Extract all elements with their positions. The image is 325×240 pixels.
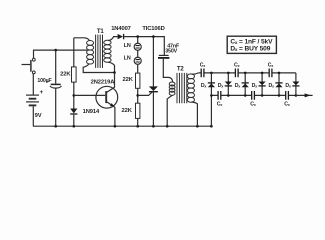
diode Dx 3 up [235, 73, 249, 96]
svg-text:Dₓ: Dₓ [235, 83, 241, 89]
capacitor Cx 3 bottom [284, 91, 290, 108]
diode D2 1N4007 [111, 26, 131, 39]
capacitor C1 100uF electrolytic [37, 50, 61, 126]
svg-text:TIC106D: TIC106D [142, 26, 164, 32]
svg-text:350V: 350V [165, 48, 177, 54]
wire between lamps [137, 50, 139, 57]
diode Dx 4 down [252, 73, 266, 96]
node dots on ground bus [54, 125, 57, 128]
wire battery to ground bus [32, 106, 34, 126]
node info box [227, 36, 276, 53]
T2 core [177, 73, 187, 103]
node junction 100uF tap [54, 49, 57, 52]
wire switch to battery [32, 74, 34, 95]
svg-text:1N914: 1N914 [83, 109, 100, 115]
svg-text:2N2219A: 2N2219A [91, 79, 116, 85]
svg-text:Cₓ: Cₓ [217, 102, 223, 108]
svg-text:1N4007: 1N4007 [111, 26, 131, 32]
svg-text:Cₓ: Cₓ [284, 102, 290, 108]
svg-text:Cₓ: Cₓ [200, 62, 206, 68]
wire CW ground riser [210, 95, 212, 126]
svg-text:+: + [47, 80, 50, 85]
wire CW bottom rail [211, 94, 296, 96]
svg-text:T1: T1 [97, 29, 105, 35]
node dots bottom rail [210, 94, 213, 97]
T1 secondary-right winding [104, 40, 111, 44]
wire lamp to R2 [137, 64, 139, 73]
T1 primary-left winding [74, 38, 90, 41]
T2 secondary winding [187, 74, 194, 79]
svg-text:LN: LN [124, 56, 131, 62]
svg-text:Dₓ = BUY 509: Dₓ = BUY 509 [230, 45, 270, 52]
thyristor U1 TIC106D [142, 26, 164, 126]
capacitor Cx C top [268, 62, 274, 77]
svg-text:Dₓ: Dₓ [268, 83, 274, 89]
T2 primary winding [169, 82, 175, 86]
resistor R1 22K (base bias) [60, 38, 76, 109]
capacitor Cx 2 bottom [250, 91, 256, 108]
node gate junction [136, 94, 139, 97]
wire top rail to 47nF corner [124, 37, 164, 55]
svg-text:LN: LN [124, 43, 131, 49]
lamp LN2 neon [124, 56, 142, 65]
node lamp tap [136, 35, 139, 38]
wire HV output with arrow [296, 93, 313, 97]
capacitor Cx 1 bottom [217, 91, 223, 108]
wire CW top rail [198, 72, 296, 74]
node base junction [73, 94, 76, 97]
transformer T1 [74, 29, 118, 73]
diode Dx 5 up [268, 73, 282, 96]
node dots top rail [210, 72, 213, 75]
diode Dx 1 up [201, 73, 215, 96]
transistor Q1 2N2219A [91, 73, 118, 127]
capacitor C2 47nF 350V [158, 44, 180, 82]
svg-text:Cₓ: Cₓ [234, 62, 240, 68]
node collector junction [113, 71, 116, 74]
svg-text:Dₓ: Dₓ [201, 83, 207, 89]
svg-text:Dₓ: Dₓ [285, 83, 291, 89]
svg-text:22K: 22K [123, 77, 134, 83]
diode Dx 6 down [285, 73, 299, 96]
resistor R2 22K [123, 73, 140, 103]
svg-text:T2: T2 [177, 67, 185, 73]
svg-text:100µF: 100µF [37, 78, 51, 84]
transformer T2 [167, 67, 198, 127]
diode Dx 2 down [218, 73, 232, 96]
svg-text:Dₓ: Dₓ [252, 83, 258, 89]
svg-text:22K: 22K [122, 108, 133, 114]
diode D1 1N914 [70, 109, 100, 127]
svg-text:Cₓ: Cₓ [250, 102, 256, 108]
lamp LN1 neon [124, 37, 142, 51]
svg-text:22K: 22K [60, 72, 71, 78]
wire +9V rail from switch to T1 tap [33, 50, 87, 58]
svg-text:9V: 9V [35, 113, 42, 119]
capacitor Cx A top [200, 62, 206, 77]
battery BT1 9V [26, 90, 44, 119]
svg-text:Cₓ = 1nF / 5kV: Cₓ = 1nF / 5kV [230, 38, 273, 45]
node SCR anode tap [152, 35, 155, 38]
switch S1 pushbutton [22, 58, 36, 74]
wire base [74, 94, 105, 96]
wire gate [138, 92, 153, 95]
ground bus wire [33, 125, 211, 127]
capacitor Cx B top [234, 62, 240, 77]
svg-text:Dₓ: Dₓ [218, 83, 224, 89]
svg-text:Cₓ: Cₓ [268, 62, 274, 68]
T1 core [96, 35, 103, 68]
resistor R3 22K [122, 103, 140, 126]
